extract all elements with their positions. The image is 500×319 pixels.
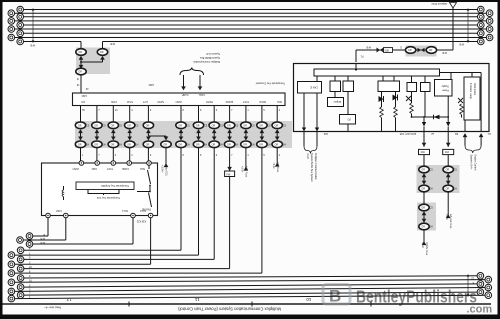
svg-text:Multiplex Communication: Multiplex Communication: [193, 60, 220, 63]
svg-text:Malfunction: Malfunction: [473, 83, 476, 96]
svg-text:GND: GND: [81, 94, 87, 97]
svg-text:W-B: W-B: [442, 51, 447, 54]
svg-text:.com: .com: [467, 304, 493, 316]
svg-text:LIVT: LIVT: [142, 100, 148, 103]
svg-text:Engine: Engine: [333, 100, 341, 103]
svg-text:SCL2: SCL2: [139, 209, 146, 212]
svg-text:Adjacent Point: Adjacent Point: [431, 2, 447, 5]
svg-text:Transponder Key Amplifier: Transponder Key Amplifier: [101, 184, 129, 187]
svg-text:VASH: VASH: [175, 100, 182, 103]
svg-text:DO: DO: [81, 100, 85, 103]
svg-text:COM: COM: [56, 209, 62, 212]
svg-text:<1-24>: <1-24>: [161, 165, 164, 173]
svg-text:TCKT: TCKT: [242, 100, 249, 103]
svg-text:SDCO: SDCO: [259, 100, 266, 103]
svg-text:<3-1>: <3-1>: [421, 242, 424, 249]
svg-text:SDA: SDA: [277, 100, 282, 103]
svg-text:SWTO: SWTO: [206, 100, 213, 103]
svg-text:Read: after <4>: Read: after <4>: [44, 306, 61, 309]
svg-text:System <3-4>: System <3-4>: [470, 155, 473, 170]
svg-text:GND: GND: [91, 167, 97, 170]
svg-text:Multiplex Communication System: Multiplex Communication System (Power Tr…: [178, 307, 281, 312]
svg-text:Body ECU: Body ECU: [165, 165, 168, 176]
svg-text:W-B: W-B: [40, 237, 45, 240]
svg-text:V28: V28: [385, 50, 390, 53]
svg-text:CODE: CODE: [122, 167, 129, 170]
svg-text:A02: A02: [323, 132, 328, 135]
svg-text:10: 10: [306, 297, 312, 302]
svg-text:B: B: [329, 287, 341, 306]
svg-text:W-B: W-B: [110, 42, 115, 45]
svg-text:K30 X22: K30 X22: [136, 220, 146, 223]
svg-text:Supply: Supply: [441, 85, 449, 88]
svg-text:System BEAN Bus: System BEAN Bus: [199, 56, 220, 59]
svg-text:Transponder Key Computer: Transponder Key Computer: [255, 82, 285, 85]
svg-text:VASH: VASH: [72, 167, 79, 170]
svg-text:ECM (A/T) K33: ECM (A/T) K33: [399, 132, 416, 135]
svg-text:GAUGE Fuse: GAUGE Fuse: [449, 214, 452, 229]
svg-text:AC: AC: [487, 132, 491, 135]
svg-text:GND: GND: [148, 83, 154, 86]
svg-text:Engine Control: Engine Control: [474, 155, 477, 171]
svg-text:<3-3>: <3-3>: [241, 166, 244, 173]
svg-text:BentleyPublishers: BentleyPublishers: [356, 287, 477, 307]
svg-text:CAN IC: CAN IC: [310, 86, 318, 89]
svg-text:Multiplex Communication: Multiplex Communication: [314, 153, 317, 180]
svg-text:VD: VD: [347, 118, 351, 121]
svg-text:<3-8>: <3-8>: [445, 214, 448, 221]
svg-text:Transponder Key Coil: Transponder Key Coil: [96, 196, 120, 199]
svg-text:W-B: W-B: [459, 43, 464, 46]
svg-text:SCL1: SCL1: [121, 209, 128, 212]
svg-text:DOME Fuse: DOME Fuse: [425, 242, 428, 256]
svg-text:STuO: STuO: [127, 100, 133, 103]
svg-text:Indicator Lamp: Indicator Lamp: [469, 83, 472, 99]
svg-text:W-B: W-B: [40, 241, 45, 244]
svg-text:11: 11: [194, 297, 199, 302]
svg-text:W-B: W-B: [366, 46, 371, 49]
svg-text:Power: Power: [442, 89, 449, 92]
svg-text:O: O: [400, 46, 402, 49]
svg-text:ON Fuse: ON Fuse: [276, 163, 279, 173]
svg-text:ENOW: ENOW: [225, 100, 233, 103]
svg-text:<2-3>: <2-3>: [306, 153, 309, 160]
svg-text:System<2-3>: System<2-3>: [205, 52, 220, 55]
svg-text:TCKT: TCKT: [106, 167, 113, 170]
svg-text:CANH: CANH: [181, 93, 188, 96]
svg-text:COW: COW: [110, 100, 117, 103]
svg-text:W-B: W-B: [30, 44, 35, 47]
svg-text:12: 12: [66, 297, 72, 302]
svg-text:<3-6>: <3-6>: [272, 163, 275, 170]
svg-text:ACC Fuse: ACC Fuse: [245, 166, 248, 178]
svg-text:SDA: SDA: [140, 167, 145, 170]
svg-text:CANL: CANL: [198, 93, 205, 96]
svg-text:System BEAN Bus System: System BEAN Bus System: [310, 153, 313, 182]
svg-text:SASH: SASH: [157, 100, 164, 103]
